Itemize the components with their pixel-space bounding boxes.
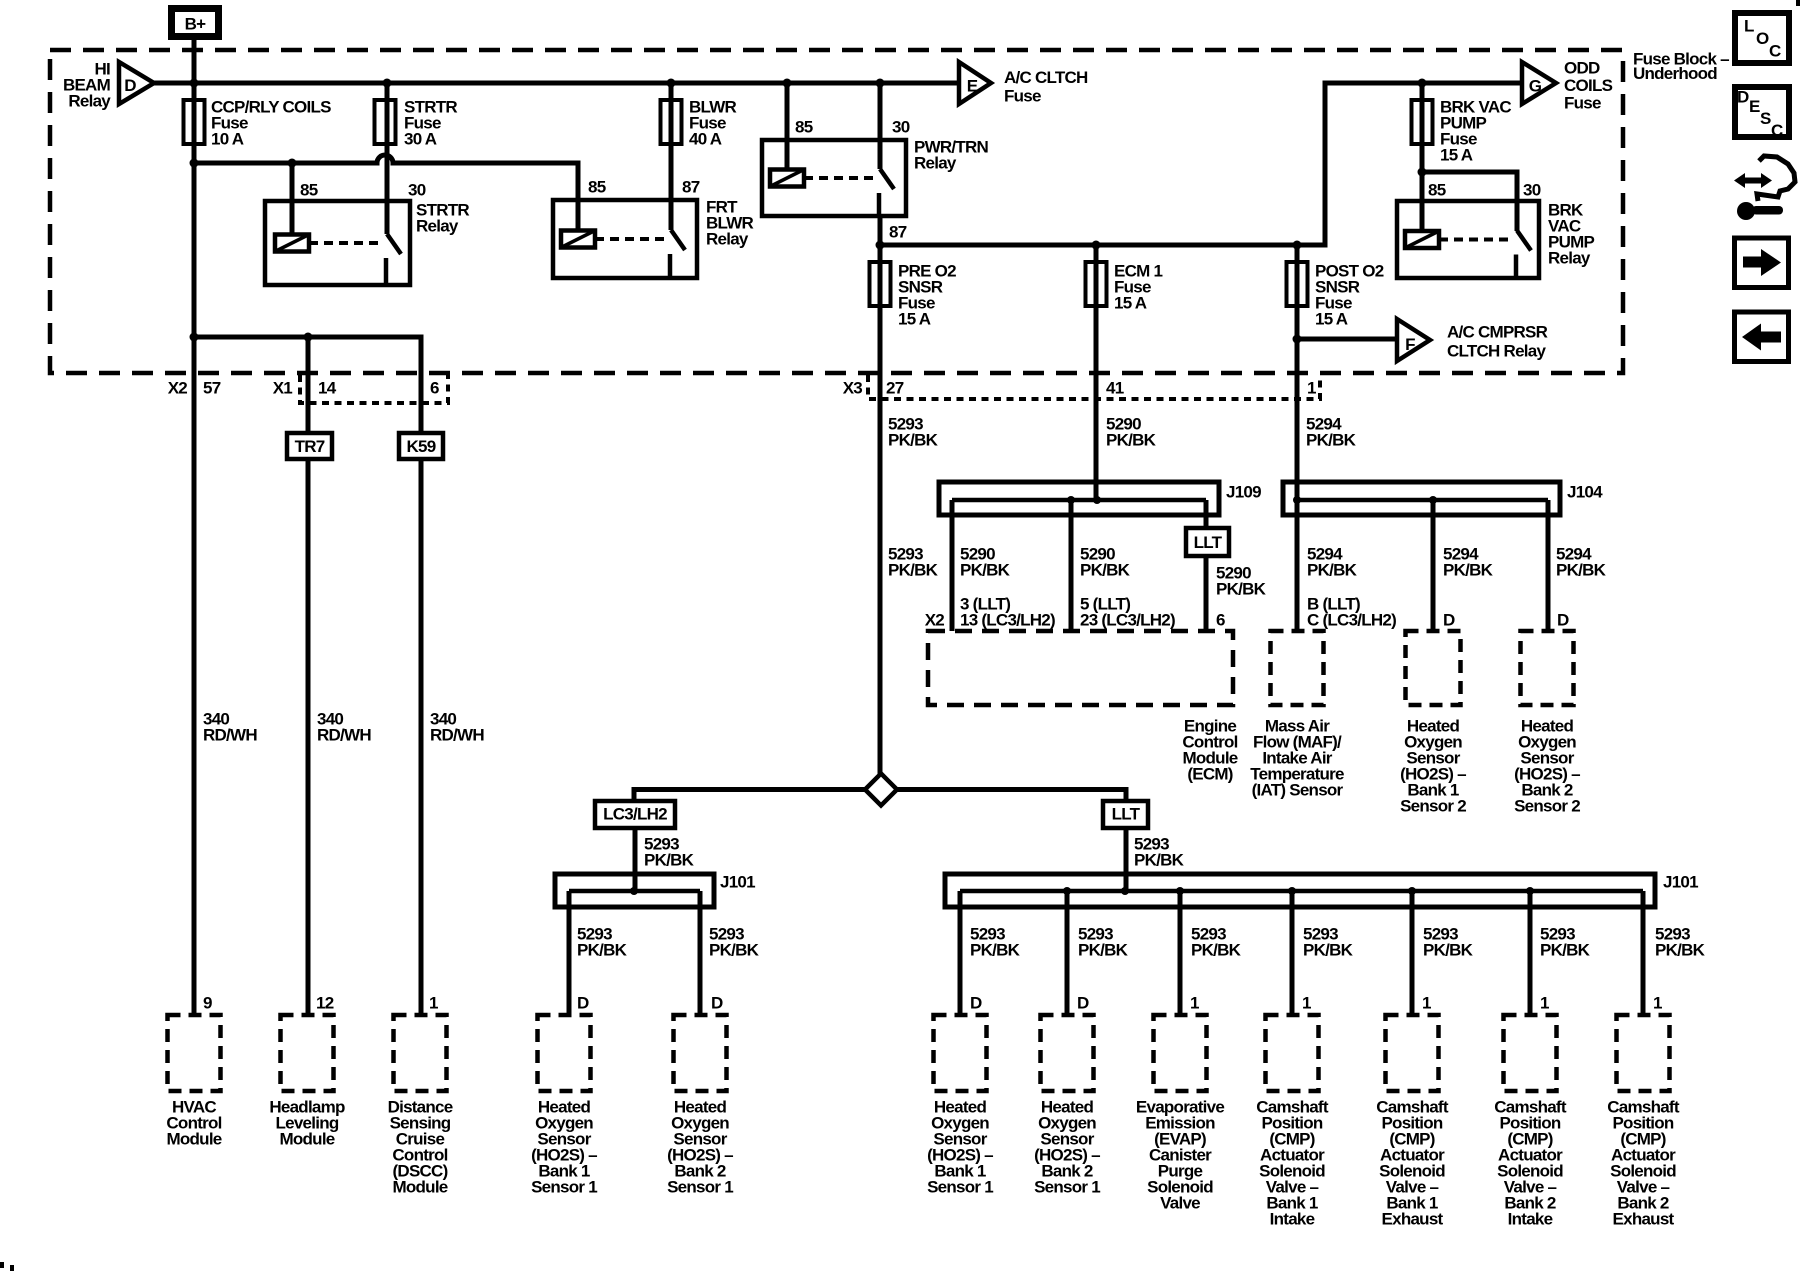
svg-text:PK/BK: PK/BK [1306, 431, 1357, 450]
svg-text:23 (LC3/LH2): 23 (LC3/LH2) [1080, 611, 1175, 630]
svg-text:J101: J101 [720, 873, 755, 892]
svg-text:D: D [1557, 611, 1569, 630]
svg-text:PK/BK: PK/BK [1134, 851, 1185, 870]
svg-text:30: 30 [408, 181, 426, 200]
svg-text:6: 6 [430, 379, 439, 398]
svg-text:PK/BK: PK/BK [1423, 941, 1474, 960]
svg-text:Relay: Relay [416, 217, 459, 236]
svg-text:27: 27 [886, 379, 904, 398]
svg-text:13 (LC3/LH2): 13 (LC3/LH2) [960, 611, 1055, 630]
svg-text:Sensor 1: Sensor 1 [927, 1178, 993, 1197]
svg-text:J104: J104 [1567, 483, 1603, 502]
svg-text:85: 85 [795, 118, 813, 137]
svg-text:Valve: Valve [1160, 1194, 1200, 1213]
svg-text:PK/BK: PK/BK [1080, 561, 1131, 580]
svg-text:L: L [1744, 17, 1754, 36]
svg-text:Sensor 2: Sensor 2 [1400, 797, 1466, 816]
svg-text:O: O [1756, 29, 1769, 48]
svg-text:1: 1 [1540, 994, 1549, 1013]
svg-text:6: 6 [1216, 611, 1225, 630]
svg-text:1: 1 [1307, 379, 1316, 398]
svg-text:Module: Module [393, 1178, 448, 1197]
svg-text:J101: J101 [1663, 873, 1698, 892]
svg-text:Sensor 2: Sensor 2 [1514, 797, 1580, 816]
svg-text:40 A: 40 A [689, 130, 722, 149]
svg-text:PK/BK: PK/BK [1106, 431, 1157, 450]
svg-text:RD/WH: RD/WH [317, 726, 371, 745]
svg-text:D: D [1077, 994, 1089, 1013]
svg-text:PK/BK: PK/BK [1216, 580, 1267, 599]
svg-text:1: 1 [1422, 994, 1431, 1013]
svg-text:PK/BK: PK/BK [1540, 941, 1591, 960]
svg-text:(ECM): (ECM) [1187, 765, 1232, 784]
svg-text:15 A: 15 A [1440, 146, 1473, 165]
svg-text:30: 30 [1523, 181, 1541, 200]
svg-text:Module: Module [167, 1130, 222, 1149]
svg-text:1: 1 [429, 994, 438, 1013]
svg-text:RD/WH: RD/WH [203, 726, 257, 745]
svg-text:85: 85 [1428, 181, 1446, 200]
svg-text:PK/BK: PK/BK [888, 561, 939, 580]
svg-text:30: 30 [892, 118, 910, 137]
svg-text:PK/BK: PK/BK [1303, 941, 1354, 960]
svg-text:D: D [1737, 88, 1749, 107]
svg-text:1: 1 [1653, 994, 1662, 1013]
svg-text:PK/BK: PK/BK [960, 561, 1011, 580]
svg-text:PK/BK: PK/BK [1191, 941, 1242, 960]
svg-text:E: E [1749, 97, 1760, 116]
svg-text:85: 85 [300, 181, 318, 200]
svg-text:10 A: 10 A [211, 130, 244, 149]
svg-text:ODD: ODD [1564, 59, 1600, 78]
svg-text:PK/BK: PK/BK [1307, 561, 1358, 580]
svg-text:Fuse: Fuse [1564, 94, 1601, 113]
svg-text:E: E [967, 77, 978, 96]
svg-text:D: D [1443, 611, 1455, 630]
svg-text:RD/WH: RD/WH [430, 726, 484, 745]
svg-text:X2: X2 [925, 611, 945, 630]
svg-text:Exhaust: Exhaust [1382, 1210, 1444, 1229]
svg-text:A/C CLTCH: A/C CLTCH [1004, 68, 1088, 87]
svg-text:K59: K59 [407, 437, 436, 456]
svg-text:14: 14 [318, 379, 337, 398]
svg-text:(IAT) Sensor: (IAT) Sensor [1252, 781, 1344, 800]
svg-text:15 A: 15 A [1315, 310, 1348, 329]
svg-text:1: 1 [1190, 994, 1199, 1013]
svg-text:Intake: Intake [1270, 1210, 1315, 1229]
svg-text:C (LC3/LH2): C (LC3/LH2) [1307, 611, 1396, 630]
svg-text:D: D [711, 994, 723, 1013]
svg-text:Exhaust: Exhaust [1613, 1210, 1675, 1229]
svg-text:C: C [1769, 42, 1781, 61]
svg-text:PK/BK: PK/BK [577, 941, 628, 960]
svg-text:TR7: TR7 [295, 437, 325, 456]
svg-text:X2: X2 [168, 379, 188, 398]
svg-text:15 A: 15 A [898, 310, 931, 329]
svg-text:Sensor 1: Sensor 1 [531, 1178, 597, 1197]
svg-text:D: D [970, 994, 982, 1013]
svg-text:Relay: Relay [706, 230, 749, 249]
svg-text:COILS: COILS [1564, 76, 1613, 95]
svg-text:B+: B+ [185, 15, 207, 34]
svg-text:PK/BK: PK/BK [1078, 941, 1129, 960]
svg-text:41: 41 [1106, 379, 1124, 398]
svg-text:PK/BK: PK/BK [888, 431, 939, 450]
svg-text:LLT: LLT [1112, 805, 1141, 824]
svg-text:Module: Module [280, 1130, 335, 1149]
svg-text:Sensor 1: Sensor 1 [667, 1178, 733, 1197]
svg-text:PK/BK: PK/BK [1443, 561, 1494, 580]
svg-text:X1: X1 [273, 379, 293, 398]
svg-text:Fuse: Fuse [1004, 87, 1041, 106]
svg-text:9: 9 [203, 994, 212, 1013]
svg-text:12: 12 [316, 994, 334, 1013]
svg-text:LLT: LLT [1194, 533, 1223, 552]
svg-text:Relay: Relay [68, 92, 111, 111]
svg-text:87: 87 [889, 223, 907, 242]
svg-text:X3: X3 [843, 379, 863, 398]
svg-text:CLTCH Relay: CLTCH Relay [1447, 342, 1546, 361]
svg-text:Sensor 1: Sensor 1 [1034, 1178, 1100, 1197]
svg-text:D: D [124, 76, 136, 95]
svg-text:Intake: Intake [1508, 1210, 1553, 1229]
svg-text:Underhood: Underhood [1633, 64, 1717, 83]
svg-text:PK/BK: PK/BK [644, 851, 695, 870]
svg-text:87: 87 [682, 178, 700, 197]
svg-text:PK/BK: PK/BK [709, 941, 760, 960]
svg-text:PK/BK: PK/BK [970, 941, 1021, 960]
svg-text:PK/BK: PK/BK [1556, 561, 1607, 580]
svg-text:PK/BK: PK/BK [1655, 941, 1706, 960]
svg-text:Relay: Relay [1548, 249, 1591, 268]
svg-text:F: F [1405, 335, 1415, 354]
svg-text:30 A: 30 A [404, 130, 437, 149]
svg-text:57: 57 [203, 379, 221, 398]
svg-text:Relay: Relay [914, 154, 957, 173]
svg-text:S: S [1760, 109, 1771, 128]
svg-text:A/C CMPRSR: A/C CMPRSR [1447, 323, 1548, 342]
svg-text:D: D [577, 994, 589, 1013]
svg-text:C: C [1771, 121, 1783, 140]
svg-text:G: G [1529, 77, 1542, 96]
svg-text:J109: J109 [1226, 483, 1261, 502]
svg-text:LC3/LH2: LC3/LH2 [603, 805, 667, 824]
svg-text:15 A: 15 A [1114, 294, 1147, 313]
svg-text:1: 1 [1302, 994, 1311, 1013]
svg-text:85: 85 [588, 178, 606, 197]
